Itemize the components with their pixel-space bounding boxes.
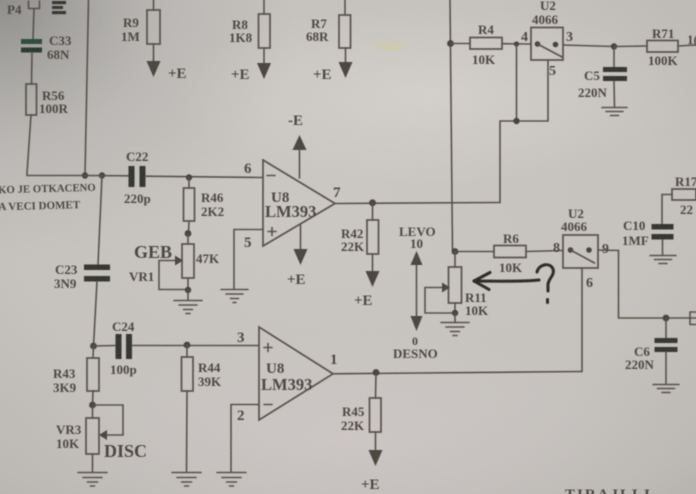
power +E below op-amp <box>287 225 308 288</box>
label GEB <box>134 242 172 262</box>
resistor R71 <box>614 26 696 68</box>
node junction C6 <box>663 315 670 322</box>
potentiometer R11 10K <box>425 252 489 319</box>
ground under C5 <box>602 81 627 116</box>
wire C23 to C24 node <box>94 282 98 347</box>
capacitor C23 <box>54 176 110 292</box>
connector P4 symbol <box>29 1 40 9</box>
capacitor C10 <box>622 218 674 248</box>
wire C33 to R56 <box>31 53 34 85</box>
node junction R44 <box>184 342 191 349</box>
text note KO JE OTKACENO <box>0 182 96 214</box>
potentiometer VR3 10K <box>56 405 123 454</box>
ground under VR3 <box>78 454 107 486</box>
node junction R42 <box>369 199 376 206</box>
hand-drawn arrow annotation <box>474 273 539 290</box>
potentiometer VR1 47K <box>129 234 220 294</box>
capacitor C24 <box>94 319 137 377</box>
ground under VR1 <box>174 290 202 314</box>
wire pin6 down to output net <box>581 268 583 372</box>
node junction R46 <box>186 174 192 180</box>
resistor at right edge partial <box>690 312 696 325</box>
resistor R56 <box>26 84 69 116</box>
annotation LEVO 10 / DESNO 0 double arrow <box>393 224 438 361</box>
connector P4 label <box>7 2 22 17</box>
pin 2 notch and label <box>231 405 259 473</box>
wire pin3 to C5 node <box>563 45 614 47</box>
resistor R7 <box>306 0 351 48</box>
capacitor C5 <box>578 47 627 101</box>
ground under pin5 <box>221 290 248 303</box>
node junction R45 <box>373 369 380 376</box>
ground under C6 <box>653 352 679 393</box>
wire connector to C33 <box>33 9 34 40</box>
resistor R46 <box>184 178 225 234</box>
wire C22 to op-amp pin6 <box>146 176 264 177</box>
wire R56 down and right to node <box>27 115 84 176</box>
resistor R43 <box>53 346 99 405</box>
wire drop from R4 net <box>516 44 518 121</box>
pin 5 notch and label <box>234 230 263 290</box>
wire C24 to op-amp pin3 <box>132 345 259 347</box>
resistor R42 <box>341 203 379 254</box>
arrow +E under R7 <box>313 48 353 83</box>
capacitor C6 <box>625 318 678 372</box>
resistor R8 <box>229 0 270 48</box>
resistor R17 top right partial <box>662 174 696 224</box>
op-amp U8b LM393 <box>237 327 338 420</box>
resistor R4 <box>450 22 531 67</box>
ground under C10 <box>650 240 676 264</box>
node junction R4 left <box>447 40 454 47</box>
analog switch U1 (U2 4066 top) <box>521 0 573 79</box>
dark text strip bottom right <box>565 487 652 494</box>
resistor R44 <box>182 345 223 472</box>
ground under R11 <box>441 313 469 336</box>
node junction C5 <box>611 43 617 49</box>
node junction R46-VR1 <box>185 230 192 237</box>
wire op-amp2 output to right <box>333 372 582 374</box>
op-amp U8a LM393 <box>244 160 341 246</box>
node junction drop to switch return <box>514 41 519 46</box>
node junction R43-VR3 <box>89 402 96 409</box>
arrow +E under R8 <box>231 48 271 83</box>
wire long vertical left net <box>85 0 89 175</box>
ground under R44 <box>172 473 201 487</box>
wire node to C22 <box>84 175 129 177</box>
arrow +E under R9 <box>147 44 187 82</box>
resistor R45 <box>341 373 381 434</box>
power -E above op-amp <box>288 113 307 178</box>
wire switch pin5 return path <box>500 60 548 203</box>
wire long vertical center net <box>450 0 453 252</box>
capacitor C33 <box>21 33 72 62</box>
node junction C24 left <box>90 343 97 350</box>
wire pin9 to C6 node <box>598 250 696 318</box>
hand-drawn question mark <box>537 265 553 303</box>
label DISC <box>104 441 147 461</box>
arrow +E under R42 <box>354 254 380 309</box>
node junction left <box>82 172 88 178</box>
wire op-amp output to right <box>335 203 500 204</box>
dark rotated letter mark F1 <box>52 1 66 14</box>
ground under pin2 <box>217 473 246 487</box>
node junction return <box>513 118 519 124</box>
node junction C23 tap <box>99 172 105 178</box>
arrow +E under R45 <box>361 432 383 493</box>
analog switch U2b (U2 4066 bottom) <box>553 206 609 291</box>
resistor R9 <box>121 0 160 44</box>
resistor R6 <box>455 231 563 275</box>
node junction R11 top <box>452 248 459 255</box>
capacitor C22 <box>124 149 151 206</box>
